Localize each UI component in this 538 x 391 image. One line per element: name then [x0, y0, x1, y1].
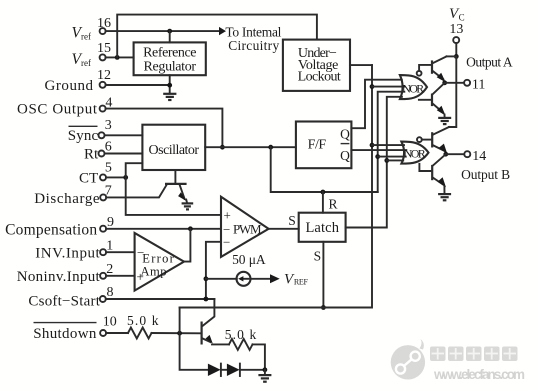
wire oscillator output to F/F [205, 146, 296, 148]
junction R branch [321, 190, 326, 195]
NOR gate B [401, 142, 428, 164]
svg-text:Ground: Ground [45, 78, 94, 94]
pin 12 number label [97, 68, 111, 83]
resistor 5.0k emitter [229, 339, 253, 350]
pin 1 number label [106, 239, 113, 254]
INV.Input pin label [35, 245, 100, 261]
svg-text:Lockout: Lockout [298, 70, 341, 85]
transistor Q-shutdown [201, 322, 213, 345]
junction CT node [123, 175, 128, 180]
pin 11 number label [472, 78, 485, 93]
wire Q output to NOR A input 1 [351, 80, 401, 129]
arrowhead to internal circuitry [219, 27, 226, 35]
svg-text:Oscillator: Oscillator [149, 143, 200, 158]
svg-text:13: 13 [449, 22, 463, 37]
node Q-bar label with overline [340, 144, 350, 164]
node R label latch top [328, 197, 337, 212]
junction shutdown node [177, 331, 182, 336]
node Q label [340, 127, 350, 142]
NOR B output bubble [417, 137, 422, 142]
svg-text:Q: Q [340, 127, 350, 142]
wire blanking line from oscillator node [271, 147, 378, 192]
Compensation pin label [5, 221, 97, 238]
pin 16 number label [97, 16, 111, 31]
junction NOR B inhibit input [370, 143, 375, 148]
current source 50uA [237, 272, 251, 286]
To Internal Circuitry label [225, 25, 281, 53]
pin 6 number label [105, 139, 112, 154]
pin 4 terminal OSC Output [100, 106, 106, 112]
junction Vc node [454, 54, 459, 59]
wire pin15 to reference regulator [106, 56, 134, 58]
watermark url text [433, 367, 525, 382]
node S label latch left [288, 213, 296, 228]
svg-text:−: − [223, 234, 230, 249]
svg-text:Shutdown: Shutdown [33, 326, 97, 342]
transistor QA1 upper output A [431, 56, 456, 82]
discharge transistor Q-osc [165, 170, 187, 201]
pin 7 number label [105, 184, 112, 199]
svg-text:NOR: NOR [402, 82, 424, 96]
wire error amp output riser [184, 229, 190, 262]
Ground pin label [45, 78, 94, 94]
pin 4 number label [105, 96, 112, 111]
svg-text:6: 6 [105, 139, 112, 154]
pin 7 terminal Discharge [100, 194, 106, 200]
reference regulator block [134, 42, 206, 75]
wire pin2 to error amp [106, 275, 135, 277]
wire pin7 discharge to transistor base [106, 185, 166, 197]
wire soft-start net vertical [206, 242, 221, 299]
svg-text:Vref: Vref [72, 51, 91, 68]
pin 9 terminal Compensation [100, 226, 106, 232]
oscillator block [142, 125, 205, 170]
svg-text:REF: REF [294, 277, 309, 286]
svg-text:Discharge: Discharge [34, 191, 100, 207]
svg-text:16: 16 [97, 16, 111, 31]
Rt pin label [84, 147, 99, 163]
pin 10 number label [103, 315, 117, 330]
transistor QB2 lower output B [431, 154, 446, 187]
wire Vc feed [455, 43, 457, 56]
wire resistor to transistor base [152, 332, 201, 334]
svg-text:Vref: Vref [72, 25, 91, 42]
flip-flop block [296, 122, 352, 169]
Output B label [461, 167, 510, 182]
svg-text:Output B: Output B [461, 167, 510, 182]
Output A label [466, 55, 513, 70]
wire transistor emitter to resistor [212, 343, 229, 345]
OSC Output pin label [17, 102, 98, 118]
junction blanking branch [268, 145, 273, 150]
svg-text:INV.Input: INV.Input [35, 245, 100, 261]
wire PWM output to latch S input [269, 228, 299, 230]
resistor 5.0k shutdown input [128, 328, 152, 339]
pin 13 number label [449, 22, 463, 37]
pin 8 terminal Csoft-Start [100, 296, 106, 302]
junction NOR A inhibit input [370, 84, 375, 89]
svg-text:11: 11 [472, 78, 485, 93]
svg-text:R: R [328, 197, 337, 212]
svg-text:Compensation: Compensation [5, 221, 97, 238]
pin 16 terminal Vref [100, 28, 106, 34]
wire Q-bar output to NOR B input 2 [351, 149, 406, 151]
svg-text:CT: CT [79, 171, 98, 187]
svg-text:Rt: Rt [84, 147, 99, 163]
wire NOR B input 4 [387, 159, 403, 161]
wire R input to latch [322, 192, 324, 213]
wire UVL output [350, 64, 372, 66]
wire pin10 to resistor [106, 332, 128, 334]
Noninv.Input pin label [17, 269, 101, 285]
node S label latch bottom [314, 249, 322, 264]
wire shutdown-latch bus horizontal [180, 65, 372, 307]
wire CT ramp to PWM comparator [126, 177, 221, 215]
junction output A node [442, 80, 447, 85]
svg-text:15: 15 [97, 41, 111, 56]
pin 6 terminal Rt [99, 151, 105, 157]
svg-text:OSC Output: OSC Output [17, 102, 98, 118]
ground symbol output B [438, 187, 451, 201]
svg-text:12: 12 [97, 68, 111, 83]
junction pin15 top rail [115, 55, 120, 60]
svg-text:5.0 k: 5.0 k [127, 313, 159, 328]
pin 2 number label [106, 262, 113, 277]
wire pin5 CT [106, 176, 126, 178]
pin 15 number label [97, 41, 111, 56]
Vc pin label [449, 6, 465, 23]
wire output A to pin 11 [445, 82, 464, 84]
svg-text:NOR: NOR [404, 147, 426, 161]
watermark chinese glyph blocks [430, 347, 518, 362]
under-voltage lockout block [283, 40, 350, 91]
svg-text:Noninv.Input: Noninv.Input [17, 269, 101, 285]
svg-text:www.elecfans.com: www.elecfans.com [433, 367, 525, 382]
5.0 k value label emitter resistor [225, 327, 257, 342]
wire NOR A output to upper transistor base [419, 65, 431, 71]
wire output B to pin 14 [446, 153, 465, 155]
wire between diodes [221, 369, 227, 371]
wire latch output to NOR gates [346, 97, 402, 228]
junction latch S bottom on bus [321, 305, 326, 310]
ground symbol discharge transistor [182, 200, 194, 210]
svg-text:Circuitry: Circuitry [228, 38, 279, 53]
wire shutdown riser to latch bus [179, 308, 181, 334]
pin 13 terminal Vc [453, 37, 459, 43]
wire pin9 compensation to PWM inverting input [106, 228, 221, 230]
pin 11 terminal [464, 80, 470, 86]
diode D2 [227, 364, 240, 376]
wire current source to VREF arrow [251, 278, 271, 280]
wire soft start to shutdown transistor collector [203, 299, 215, 326]
NOR A output bubble [417, 71, 422, 76]
pin 10 terminal Shutdown [100, 330, 106, 336]
Discharge pin label [34, 191, 100, 207]
ground symbol shutdown diodes [258, 370, 271, 382]
junction blanking to NOR B [375, 154, 380, 159]
svg-text:Amp: Amp [141, 264, 167, 278]
svg-text:14: 14 [472, 149, 486, 164]
transistor QB1 upper output B [431, 127, 449, 154]
pin 3 number label [105, 118, 112, 133]
svg-text:Q: Q [340, 148, 350, 163]
wire reference regulator to ground [169, 75, 171, 93]
wire pin16 to internal circuitry arrow [106, 30, 220, 32]
pin 12 terminal Ground [100, 82, 106, 88]
pin 2 terminal Noninv.Input [100, 273, 106, 279]
pin 9 number label [107, 215, 114, 230]
svg-text:Regulator: Regulator [144, 59, 197, 74]
pin 15 terminal Vref [100, 54, 106, 60]
wire emitter resistor down to diode node [253, 344, 265, 369]
ground symbol output A [438, 115, 451, 125]
junction output B node [443, 152, 448, 157]
junction soft start node [204, 297, 209, 302]
svg-text:Latch: Latch [305, 220, 339, 236]
svg-text:7: 7 [105, 184, 112, 199]
wire pin6 Rt to oscillator [105, 153, 143, 155]
wire pin4 OSC output riser [106, 109, 223, 148]
wire NOR B to lower transistor base [419, 164, 431, 171]
svg-text:5.0 k: 5.0 k [225, 327, 257, 342]
wire top rail to under-voltage lockout [117, 15, 317, 58]
wire pin1 to error amp [106, 251, 135, 253]
wire NOR B input 1 [372, 144, 404, 146]
junction Vref line to reference regulator [167, 29, 172, 34]
op-amp error amplifier [135, 233, 184, 291]
svg-text:S: S [288, 213, 296, 228]
latch block [299, 213, 346, 242]
wire pin12 ground line [106, 84, 170, 86]
ground symbol below reference regulator [163, 94, 176, 100]
svg-text:F/F: F/F [308, 138, 327, 153]
transistor QA2 lower output A [431, 83, 446, 116]
junction diode ground node [263, 367, 268, 372]
watermark logo circle [391, 339, 425, 379]
svg-text:Csoft−Start: Csoft−Start [28, 293, 100, 309]
junction latch output to NOR B [384, 158, 389, 163]
wire pin3 sync to oscillator [105, 134, 143, 136]
wire NOR B input 3 [378, 156, 406, 158]
pin 1 terminal INV.Input [100, 249, 106, 255]
junction oscillator output node [220, 145, 225, 150]
pin 8 number label [107, 285, 114, 300]
svg-text:+: + [224, 208, 231, 223]
svg-text:PWM: PWM [233, 222, 262, 237]
diode D1 [208, 364, 221, 376]
svg-text:C: C [459, 13, 465, 23]
svg-text:S: S [314, 249, 322, 264]
pin 14 terminal [464, 151, 470, 157]
pin 14 number label [472, 149, 486, 164]
wire NOR B output to upper transistor base [422, 139, 431, 141]
VREF label [284, 271, 308, 287]
Shutdown pin label with overline [33, 323, 97, 342]
5.0 k value label shutdown resistor [127, 313, 159, 328]
wire shutdown node down to diode line [180, 333, 208, 370]
junction ground node [167, 83, 172, 88]
wire latch S bottom lead [322, 242, 324, 308]
wire NOR A to lower transistor base [419, 99, 431, 101]
svg-text:Error: Error [142, 251, 174, 265]
pin 3 terminal Sync [99, 132, 105, 138]
svg-text:8: 8 [107, 285, 114, 300]
Vref label pin16 [72, 25, 91, 42]
Csoft-Start pin label [28, 293, 100, 309]
50 uA value label [232, 252, 266, 267]
svg-text:5: 5 [105, 161, 112, 176]
wire Vc rail down to output B [449, 56, 456, 127]
junction error amp output to compensation [188, 226, 193, 231]
wire NOR A input 2 [372, 86, 405, 88]
Sync pin label with overline [68, 126, 99, 144]
svg-text:Output A: Output A [466, 55, 513, 70]
wire reference regulator top feed [169, 31, 171, 42]
wire diode to ground node [240, 369, 265, 371]
NOR gate A [400, 75, 427, 99]
pin 5 number label [105, 161, 112, 176]
svg-text:10: 10 [103, 315, 117, 330]
arrowhead VREF [270, 274, 280, 283]
svg-text:50 μA: 50 μA [232, 252, 266, 267]
CT pin label [79, 171, 98, 187]
wire CT to oscillator [126, 163, 143, 177]
svg-text:3: 3 [105, 118, 112, 133]
wire current source left lead [206, 278, 237, 280]
comparator PWM [221, 197, 269, 257]
Vref label pin15 [72, 51, 91, 68]
wire blanking riser to NOR gates [378, 92, 405, 192]
pin 5 terminal CT [100, 174, 106, 180]
svg-text:2: 2 [106, 262, 113, 277]
wire pin8 soft start line [106, 298, 215, 300]
svg-text:Sync: Sync [68, 128, 99, 144]
junction current source tap [204, 276, 209, 281]
